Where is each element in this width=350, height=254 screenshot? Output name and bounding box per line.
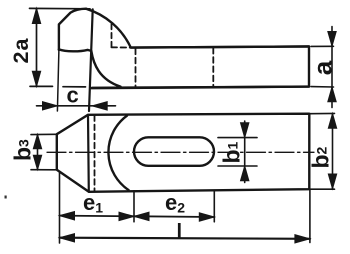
side view: hidden line slot right end xyxy=(212,48,214,86)
dimension e1/e2: middle extension line (slot left end) xyxy=(133,191,135,222)
side view: nose bottom edge xyxy=(59,49,91,51)
plan view: slot (elongated hole) xyxy=(134,137,214,166)
dimension a: top arrow (outside, pointing down) xyxy=(328,32,336,47)
dimension b2: bottom extension line xyxy=(310,188,334,190)
dimension e1/l: left extension line xyxy=(59,172,61,244)
dimension b1: bottom extension line xyxy=(218,165,257,167)
scan speck xyxy=(5,196,7,199)
dimension c: dimension line xyxy=(37,105,116,107)
dimension b3: bottom extension line xyxy=(31,169,56,171)
dimension c: left arrow (outside) xyxy=(43,102,58,110)
dimension b2: top extension line xyxy=(310,112,334,114)
dimension 2a: bottom extension tick xyxy=(30,85,86,88)
dimension e1: left arrow xyxy=(60,212,75,220)
dimension b2: dimension line xyxy=(332,114,334,189)
plan view: throat relief arc xyxy=(108,116,128,190)
svg-text:a: a xyxy=(308,60,338,75)
dimension e1: right arrow xyxy=(119,212,134,220)
dimension e1/e2: dimension line xyxy=(60,216,215,217)
side view: hidden edge vertical (throat) xyxy=(111,24,113,47)
dimension a: top extension line xyxy=(311,45,334,47)
dimension b1: top extension line xyxy=(218,137,257,139)
dimension b2: bottom arrow xyxy=(328,174,336,189)
side view: bar bottom edge xyxy=(91,87,309,89)
dimension 2a: top extension line xyxy=(30,7,91,9)
plan view: outline xyxy=(57,114,309,192)
side view: hidden line slot left end xyxy=(135,49,137,87)
dimension 2a: top arrow xyxy=(32,8,40,23)
svg-text:2a: 2a xyxy=(9,38,33,64)
plan view: center line xyxy=(47,151,314,153)
dimension e2: right arrow xyxy=(199,213,214,221)
dimension l: left arrow xyxy=(60,234,75,242)
side view: left edge extension (c) xyxy=(57,50,59,111)
side view: front vertical edge xyxy=(89,9,93,111)
side view: bar top edge xyxy=(131,46,309,47)
dimension c: right arrow (outside) xyxy=(92,102,107,110)
dimension a: dimension line xyxy=(331,27,333,108)
plan view: hidden nose edge (dashed) xyxy=(94,116,96,192)
dimension e2: left arrow xyxy=(134,212,149,220)
side view: hidden edge horizontal (throat) xyxy=(112,46,131,48)
svg-text:l: l xyxy=(177,221,183,243)
dimension 2a: bottom arrow xyxy=(32,71,40,86)
dimension b3: top arrow xyxy=(33,134,41,148)
plan view: chamfer end vertical edge xyxy=(87,115,90,192)
svg-text:c: c xyxy=(67,83,79,108)
dimension l: dimension line xyxy=(60,238,310,239)
dimension b1: dimension line xyxy=(244,121,246,183)
dimension b3: top extension line xyxy=(31,133,56,135)
side view: throat arc xyxy=(91,51,120,87)
dimension a: bottom extension line xyxy=(311,86,334,88)
dimension b2: top arrow xyxy=(328,114,336,129)
dimension b3: dimension line xyxy=(37,134,39,169)
dimension b1: bottom arrow (outside, pointing up) xyxy=(241,166,249,181)
dimension a: bottom arrow (outside, pointing up) xyxy=(328,87,336,102)
dimension 2a: dimension line xyxy=(36,8,38,86)
dimension l: right arrow xyxy=(295,235,310,243)
dimension b1: top arrow (outside, pointing down) xyxy=(241,123,249,138)
side view: clamp outline xyxy=(59,9,309,88)
dimension l: right extension line (part right end) xyxy=(309,189,311,242)
dimension b3: bottom arrow xyxy=(33,155,41,169)
dimension e2: right extension line (slot right end) xyxy=(213,191,215,222)
